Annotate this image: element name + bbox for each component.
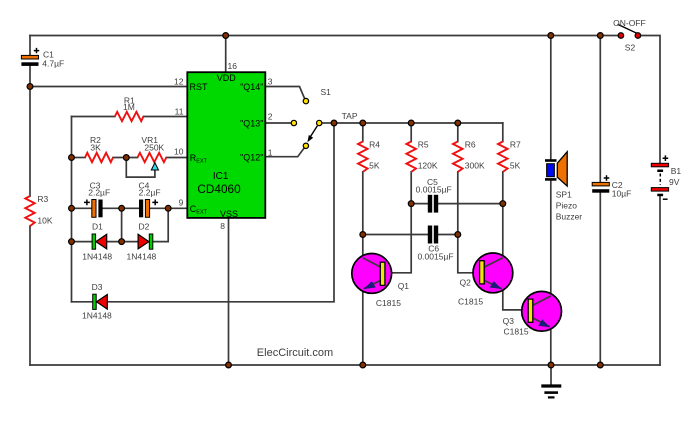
node C5 left (408, 201, 414, 207)
svg-text:1M: 1M (123, 102, 135, 112)
svg-text:5K: 5K (510, 161, 521, 171)
wire Q3 emitter to bottom rail (533, 318, 551, 365)
svg-text:S1: S1 (321, 87, 332, 97)
node TAP (331, 120, 337, 126)
wire pin3 to S1 (265, 87, 305, 100)
wire R4 top (362, 123, 364, 142)
wire R7 bottom to Q2 collector (484, 172, 502, 267)
wire C3 row left (72, 207, 92, 209)
node C2 top (597, 33, 603, 39)
wire VR1 wiper return (126, 158, 155, 178)
svg-text:10K: 10K (37, 216, 52, 226)
wire D1 row left (72, 241, 93, 243)
wire pin1 to S1 (265, 148, 304, 157)
svg-text:300K: 300K (465, 161, 485, 171)
node pin9 (165, 205, 171, 211)
switch S1 lever arrow (307, 126, 317, 142)
wire R1 row left (72, 116, 115, 118)
wire R1 row right to pin11 (143, 116, 187, 118)
svg-text:TAP: TAP (342, 111, 358, 121)
svg-text:5K: 5K (369, 161, 380, 171)
wire C6 row right (438, 234, 458, 236)
svg-text:3K: 3K (90, 142, 101, 152)
svg-text:9: 9 (179, 197, 184, 207)
svg-text:0.0015µF: 0.0015µF (417, 251, 453, 261)
svg-text:2.2µF: 2.2µF (88, 187, 110, 197)
resistor R3 (25, 196, 34, 226)
svg-text:Piezo: Piezo (556, 201, 578, 211)
potentiometer VR1 (138, 153, 167, 162)
svg-text:Q3: Q3 (503, 316, 515, 326)
wire left rail to C1 (29, 36, 31, 56)
svg-text:C1815: C1815 (504, 326, 529, 336)
svg-text:1N4148: 1N4148 (82, 310, 112, 320)
svg-text:120K: 120K (418, 161, 438, 171)
wire D3 row left (72, 301, 93, 303)
svg-text:Q2: Q2 (460, 277, 472, 287)
svg-text:"Q13": "Q13" (240, 118, 263, 128)
svg-text:B1: B1 (671, 166, 682, 176)
svg-text:250K: 250K (144, 142, 164, 152)
node R6 top (455, 120, 461, 126)
wire R7 top corner (502, 123, 504, 142)
node C6 right (455, 232, 461, 238)
svg-text:ElecCircuit.com: ElecCircuit.com (257, 347, 333, 359)
node R2 left (69, 155, 75, 161)
svg-text:"Q12": "Q12" (240, 152, 263, 162)
svg-text:CD4060: CD4060 (197, 182, 241, 196)
wire D1 to D2 (107, 241, 138, 243)
wire Q2 emitter to Q3 base (484, 281, 528, 310)
wire S1 common to TAP (322, 122, 334, 124)
svg-text:3: 3 (268, 77, 273, 87)
wire R2 to VR1 (113, 157, 138, 159)
svg-text:RST: RST (190, 82, 209, 92)
svg-text:ON-OFF: ON-OFF (613, 18, 646, 28)
wire C5 row right (438, 203, 503, 205)
wire bottom rail (30, 364, 660, 366)
switch S1 contacts (291, 98, 322, 148)
wire right rail upper to S2 (641, 36, 660, 164)
svg-text:S2: S2 (625, 43, 636, 53)
wire D2 up to pin9 node (153, 208, 168, 241)
wire C2 bottom (599, 193, 601, 365)
transistor Q3 (522, 291, 562, 331)
wire VDD pin16 (225, 36, 227, 73)
piezo buzzer SP1 (545, 152, 567, 186)
svg-text:2: 2 (268, 111, 273, 121)
transistor Q1 (352, 254, 392, 294)
node C2 bottom (597, 362, 603, 368)
wire R2 row left (72, 157, 86, 159)
wire R4 bottom to Q1 collector (363, 172, 381, 267)
svg-text:VSS: VSS (220, 209, 238, 219)
node D1/D2 (119, 239, 125, 245)
ground symbol (541, 386, 561, 397)
svg-text:D1: D1 (92, 222, 103, 232)
node VDD top (223, 33, 229, 39)
capacitor C2 (592, 175, 609, 193)
node D1 left (69, 239, 75, 245)
node C1/RST (27, 84, 33, 90)
wire TAP rail (334, 122, 503, 124)
wire D3 to TAP vertical (108, 123, 335, 302)
svg-text:SP1: SP1 (556, 190, 572, 200)
svg-text:0.0015µF: 0.0015µF (416, 185, 452, 195)
resistor R2 (85, 153, 113, 162)
wire VR1 to pin10 (166, 157, 187, 159)
potentiometer VR1 wiper arrow (151, 163, 158, 170)
wire C5 row left (411, 203, 427, 205)
wire C4 to pin9 (150, 207, 188, 209)
switch S2 contacts (618, 33, 641, 39)
capacitor C4 (139, 200, 158, 218)
diode D1 (92, 234, 107, 249)
node ground (548, 362, 554, 368)
capacitor C3 (84, 200, 103, 218)
node C6 left (360, 232, 366, 238)
wire R6 bottom to Q2 base (458, 172, 480, 273)
svg-text:12: 12 (174, 76, 184, 86)
wire RST pin12 (30, 86, 188, 88)
resistor R4 (358, 142, 368, 172)
IC1 CD4060 body (187, 72, 265, 218)
svg-text:2.2µF: 2.2µF (139, 187, 161, 197)
resistor R7 (498, 142, 508, 172)
capacitor C5 (428, 195, 438, 213)
node R5 top (408, 120, 414, 126)
svg-text:R4: R4 (369, 140, 380, 150)
resistor R6 (453, 142, 463, 172)
svg-text:1: 1 (268, 147, 273, 157)
RESISTORS (25, 112, 507, 226)
wire C2 top (599, 36, 601, 183)
svg-text:C1815: C1815 (376, 298, 401, 308)
resistor R1 (115, 112, 144, 121)
wire SP1 to Q3 collector (533, 181, 551, 306)
svg-text:VDD: VDD (217, 73, 237, 83)
svg-text:R3: R3 (37, 194, 48, 204)
wire C1 to R3 (29, 66, 31, 196)
wire C3C4 node down to D1D2 node (121, 208, 123, 241)
wire C6 row left (363, 234, 428, 236)
wire VSS pin8 (228, 218, 230, 365)
wire top supply rail (30, 35, 621, 37)
node R2/VR1 (123, 155, 129, 161)
transistor Q2 (473, 253, 513, 293)
resistor R5 (406, 142, 416, 172)
capacitor C6 (428, 226, 438, 244)
node C3/C4 (119, 205, 125, 211)
wire pin2 to S1 (265, 122, 291, 124)
wire ground stem (550, 365, 552, 385)
battery B1 (651, 155, 668, 199)
svg-text:R5: R5 (418, 140, 429, 150)
wire R6 top (457, 123, 459, 142)
diode D3 (93, 294, 108, 309)
svg-text:11: 11 (175, 106, 184, 116)
svg-text:D2: D2 (138, 222, 149, 232)
wire right rail lower (659, 196, 661, 365)
svg-text:1N4148: 1N4148 (127, 251, 157, 261)
node Q1 emitter bottom (360, 362, 366, 368)
wire R5 bottom through C5 node to Q1 base (385, 172, 411, 273)
svg-text:C1815: C1815 (458, 296, 483, 306)
svg-text:Buzzer: Buzzer (556, 211, 583, 221)
node C5 right (500, 201, 506, 207)
wire loop left rail (71, 117, 73, 302)
wire Q1 emitter to bottom rail (363, 281, 381, 366)
svg-text:4.7µF: 4.7µF (42, 58, 64, 68)
svg-text:D3: D3 (92, 282, 103, 292)
capacitor C1 (21, 48, 39, 66)
svg-text:Q1: Q1 (398, 281, 410, 291)
node VSS bottom (226, 362, 232, 368)
node R4 top (360, 120, 366, 126)
svg-text:R7: R7 (510, 140, 521, 150)
wire SP1 top (550, 36, 552, 160)
wire C3 to C4 (103, 207, 139, 209)
node SP1 top (548, 33, 554, 39)
svg-text:9V: 9V (669, 177, 680, 187)
wire R3 to bottom rail (29, 226, 31, 365)
svg-text:8: 8 (220, 221, 225, 231)
svg-text:1N4148: 1N4148 (82, 251, 112, 261)
svg-text:10: 10 (174, 147, 184, 157)
svg-text:IC1: IC1 (213, 171, 229, 182)
node C3 left (69, 205, 75, 211)
wire R5 top (410, 123, 412, 142)
svg-text:"Q14": "Q14" (240, 82, 263, 92)
diode D2 (138, 234, 153, 249)
svg-text:16: 16 (228, 61, 238, 71)
svg-text:10µF: 10µF (612, 189, 632, 199)
svg-text:R6: R6 (465, 140, 476, 150)
switch S2 lever (618, 24, 638, 34)
